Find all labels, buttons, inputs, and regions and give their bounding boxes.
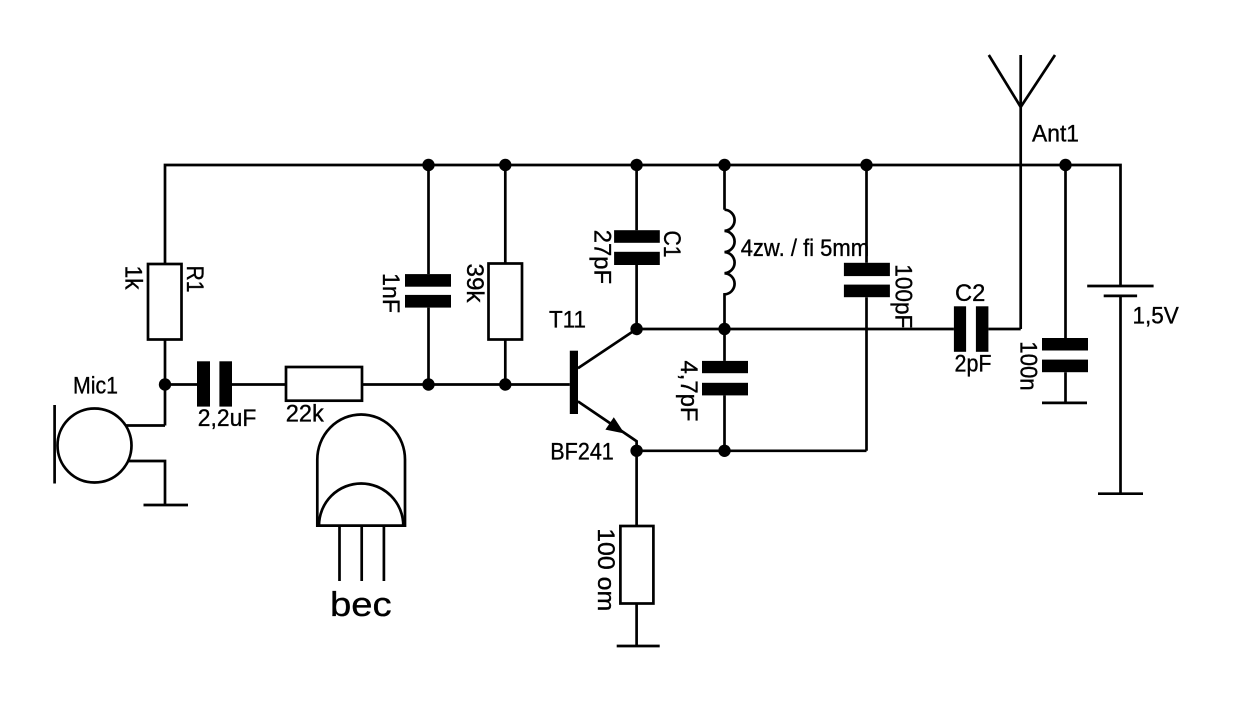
- node collector junction: [630, 323, 642, 335]
- svg-text:R1: R1: [181, 266, 208, 293]
- node 1nF top rail: [422, 159, 434, 171]
- ground bar under mic: [144, 504, 189, 507]
- wire emitter line: [637, 449, 867, 452]
- svg-text:C2: C2: [955, 280, 985, 307]
- node 100pF top rail: [860, 159, 872, 171]
- battery B1 positive plate: [1087, 285, 1153, 288]
- wire 4,7pF bottom: [723, 395, 726, 450]
- capacitor 1nF: [405, 274, 451, 308]
- transistor T11 emitter arrow: [605, 417, 624, 433]
- ground bar under 100n: [1042, 402, 1087, 405]
- wire 100om resistor bottom: [635, 604, 638, 647]
- resistor R1: [148, 264, 182, 340]
- wire 100n top: [1064, 165, 1067, 338]
- svg-text:1nF: 1nF: [377, 273, 404, 313]
- wire 39k bottom: [504, 340, 507, 385]
- wire 4,7pF top: [723, 329, 726, 361]
- wire 100pF top: [865, 165, 868, 263]
- capacitor 100pF: [844, 263, 890, 297]
- svg-text:22k: 22k: [286, 401, 325, 428]
- wire 100n bottom: [1064, 372, 1067, 403]
- wire mic top terminal: [126, 424, 165, 427]
- svg-text:BF241: BF241: [550, 438, 614, 465]
- svg-text:4,7pF: 4,7pF: [675, 361, 702, 422]
- battery B1 negative plate: [1104, 295, 1137, 298]
- wire top supply rail with left and right corner drops: [165, 165, 1121, 286]
- svg-text:Mic1: Mic1: [73, 373, 118, 400]
- TO-92 package outline bec: [317, 415, 405, 526]
- svg-text:100 om: 100 om: [592, 528, 619, 611]
- antenna Ant1: [989, 55, 1055, 329]
- node base/39k junction: [499, 378, 511, 390]
- node C1 top rail: [630, 159, 642, 171]
- svg-text:39k: 39k: [461, 264, 488, 304]
- wire base line from 22k to transistor: [362, 383, 570, 386]
- svg-text:2pF: 2pF: [955, 350, 992, 377]
- wire 100om resistor top: [635, 451, 638, 526]
- svg-text:1k: 1k: [120, 266, 147, 291]
- wire collector line to C2: [637, 328, 954, 331]
- svg-text:T11: T11: [549, 307, 586, 334]
- wire mic bottom terminal to ground: [128, 461, 165, 505]
- svg-text:C1: C1: [658, 231, 685, 258]
- battery terminal bar: [1098, 492, 1143, 495]
- resistor 39k: [489, 264, 523, 340]
- svg-text:bec: bec: [330, 586, 392, 624]
- node inductor top rail: [718, 159, 730, 171]
- capacitor 4,7pF: [702, 361, 748, 396]
- svg-text:100pF: 100pF: [890, 264, 917, 328]
- svg-text:2,2uF: 2,2uF: [198, 405, 256, 432]
- capacitor C2: [954, 306, 989, 352]
- svg-text:Ant1: Ant1: [1032, 121, 1079, 148]
- wire battery bottom: [1119, 296, 1122, 494]
- inductor L1 coil 4zw. / fi 5mm: [725, 210, 735, 329]
- wire 100pF bottom to emitter line: [865, 297, 868, 451]
- capacitor 2,2uF: [197, 361, 232, 406]
- wire 1nF bottom: [427, 308, 430, 385]
- wire inductor top: [723, 165, 726, 210]
- pin b lead: [338, 526, 341, 581]
- microphone Mic1: [55, 405, 132, 484]
- transistor T11 emitter lead: [578, 401, 637, 450]
- ground bar under 100om: [617, 645, 660, 648]
- svg-text:4zw. / fi 5mm: 4zw. / fi 5mm: [741, 235, 869, 262]
- svg-text:100n: 100n: [1015, 341, 1042, 390]
- transistor T11 collector lead: [578, 329, 637, 368]
- wire node to C 2,2uF: [165, 383, 197, 386]
- pin e lead: [360, 526, 363, 581]
- node emitter junction: [630, 445, 642, 457]
- svg-text:27pF: 27pF: [589, 230, 616, 284]
- node 4,7pF emitter junction: [718, 445, 730, 457]
- wire C2 to antenna: [988, 328, 1020, 331]
- resistor 100 om: [620, 526, 653, 604]
- wire C1 bottom to collector node: [635, 265, 638, 329]
- node 100n top rail: [1059, 159, 1071, 171]
- capacitor C1: [614, 230, 660, 265]
- node base/1nF junction: [422, 378, 434, 390]
- pin c lead: [383, 526, 386, 581]
- resistor 22k: [286, 367, 362, 401]
- node 39k top rail: [499, 159, 511, 171]
- wire 39k top: [504, 165, 507, 264]
- wire 1nF top: [427, 165, 430, 274]
- node junction R1/C-2,2uF/mic: [159, 378, 171, 390]
- wire C 2,2uF to R 22k: [232, 383, 286, 386]
- svg-text:1,5V: 1,5V: [1133, 303, 1179, 330]
- wire R1 bottom to mic top terminal: [164, 340, 167, 426]
- transistor T11 base bar: [570, 351, 578, 414]
- wire C1 top: [635, 165, 638, 230]
- capacitor 100n: [1042, 338, 1088, 372]
- node inductor bottom junction: [718, 323, 730, 335]
